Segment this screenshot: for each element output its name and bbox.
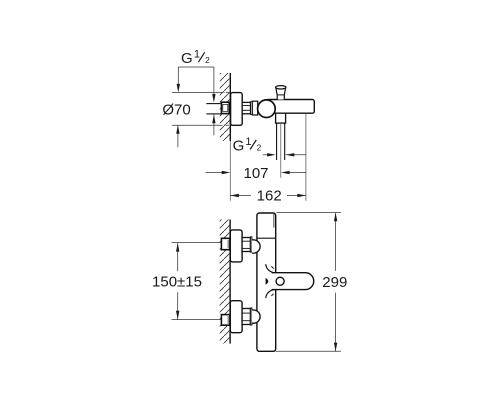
svg-text:107: 107 — [243, 165, 268, 182]
svg-text:2: 2 — [205, 55, 210, 65]
svg-text:150±15: 150±15 — [152, 273, 202, 290]
svg-text:162: 162 — [257, 187, 282, 204]
svg-text:1: 1 — [245, 136, 251, 148]
svg-text:Ø70: Ø70 — [162, 102, 190, 119]
svg-text:299: 299 — [322, 274, 347, 291]
svg-text:G: G — [233, 138, 245, 155]
svg-text:2: 2 — [257, 142, 262, 152]
svg-text:1: 1 — [194, 49, 200, 61]
svg-text:G: G — [181, 50, 193, 67]
